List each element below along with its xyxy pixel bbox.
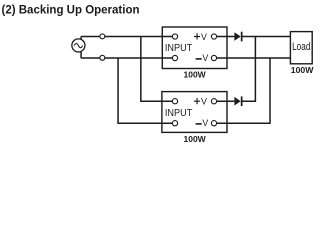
svg-text:100W: 100W (291, 66, 314, 75)
svg-text:100W: 100W (184, 135, 207, 144)
svg-text:(2) Backing Up Operation: (2) Backing Up Operation (2, 4, 140, 17)
svg-text:V: V (201, 97, 207, 107)
svg-text:V: V (202, 118, 208, 128)
svg-text:V: V (202, 53, 208, 63)
svg-text:INPUT: INPUT (165, 43, 193, 54)
svg-text:Load: Load (292, 41, 310, 53)
svg-text:INPUT: INPUT (165, 108, 193, 119)
svg-text:100W: 100W (184, 70, 207, 79)
svg-text:V: V (201, 32, 207, 42)
